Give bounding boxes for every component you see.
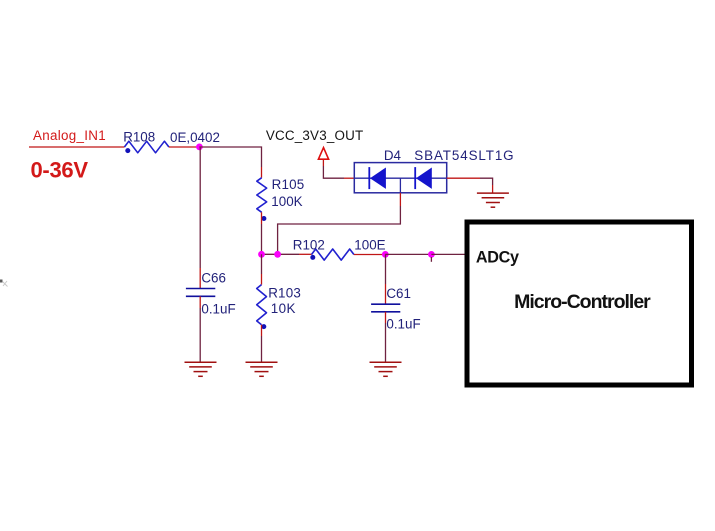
wire into micro-controller bbox=[431, 253, 466, 255]
label D4 bbox=[384, 148, 402, 163]
capacitor C66 bbox=[186, 289, 215, 297]
wire R105 to junction row bbox=[261, 212, 263, 254]
value 0E,0402 bbox=[170, 130, 220, 145]
label R103 bbox=[268, 285, 301, 300]
value 100E bbox=[354, 238, 385, 253]
wire R103 to ground bbox=[261, 325, 263, 362]
label R108 bbox=[123, 129, 155, 144]
node junction (R103 top) bbox=[258, 251, 265, 258]
svg-text:R102: R102 bbox=[293, 237, 325, 252]
capacitor C61 bbox=[371, 304, 400, 312]
svg-text:R105: R105 bbox=[272, 177, 305, 192]
label Micro-Controller bbox=[514, 291, 651, 313]
wire junction row y=254 bbox=[262, 253, 312, 255]
value 0.1uF (C61) bbox=[386, 317, 420, 332]
resistor R103 bbox=[257, 254, 267, 329]
wire red pin into R105 bbox=[261, 167, 263, 178]
ground (D4) bbox=[477, 193, 509, 207]
svg-text:100K: 100K bbox=[271, 194, 302, 209]
svg-text:100E: 100E bbox=[354, 238, 385, 253]
wire R102 to C61 junction bbox=[354, 254, 385, 256]
diode D4 right element bbox=[415, 167, 432, 189]
node junction (C61 tap) bbox=[382, 251, 389, 258]
label R105 bbox=[272, 177, 305, 192]
value 10K bbox=[271, 301, 296, 316]
power symbol VCC_3V3_OUT bbox=[266, 128, 363, 159]
D4 center pin inside box bbox=[399, 178, 401, 193]
resistor R102 bbox=[310, 249, 354, 260]
svg-text:D4: D4 bbox=[384, 148, 402, 163]
value 0.1uF (C66) bbox=[201, 302, 235, 317]
wire Analog_IN1 to R108 bbox=[29, 146, 124, 148]
svg-text:0.1uF: 0.1uF bbox=[201, 302, 235, 317]
diode D4 left element bbox=[369, 167, 386, 189]
wire R108 to junction bbox=[169, 146, 200, 148]
ground (R103) bbox=[246, 362, 278, 376]
ground (C66) bbox=[185, 362, 217, 376]
resistor R108 bbox=[124, 141, 168, 153]
label 0-36V bbox=[31, 157, 89, 182]
svg-text:0.1uF: 0.1uF bbox=[386, 317, 420, 332]
svg-text:10K: 10K bbox=[271, 301, 296, 316]
ground (C61) bbox=[370, 362, 402, 376]
wire junction to ADC node bbox=[385, 253, 431, 255]
svg-text:ADCy: ADCy bbox=[476, 249, 519, 267]
label C66 bbox=[201, 270, 226, 285]
wire C61 to ground bbox=[385, 312, 387, 362]
label R102 bbox=[293, 237, 325, 252]
svg-text:C66: C66 bbox=[201, 270, 226, 285]
label C61 bbox=[386, 286, 411, 301]
diode D4 box bbox=[354, 163, 446, 193]
edge artifact mark bbox=[0, 280, 8, 287]
wire C61 junction down bbox=[385, 254, 387, 304]
node junction (D4 branch) bbox=[274, 251, 281, 258]
svg-text:Analog_IN1: Analog_IN1 bbox=[33, 128, 106, 143]
node junction A (R108 out) bbox=[196, 144, 203, 151]
node junction (ADC stub) bbox=[428, 251, 435, 262]
micro-controller U-block bbox=[467, 222, 692, 385]
net label Analog_IN1 bbox=[33, 128, 106, 143]
pin label ADCy bbox=[476, 249, 519, 267]
wire C66 to ground bbox=[199, 296, 201, 362]
wire D4 right pin to ground bbox=[447, 178, 493, 193]
svg-text:C61: C61 bbox=[386, 286, 411, 301]
svg-text:0E,0402: 0E,0402 bbox=[170, 130, 220, 145]
svg-text:R108: R108 bbox=[123, 129, 155, 144]
resistor R105 bbox=[257, 178, 267, 221]
svg-text:SBAT54SLT1G: SBAT54SLT1G bbox=[414, 148, 514, 163]
svg-text:R103: R103 bbox=[268, 285, 301, 300]
wire junction down to C66 bbox=[199, 147, 201, 288]
value SBAT54SLT1G bbox=[414, 148, 514, 163]
value 100K bbox=[271, 194, 302, 209]
svg-text:Micro-Controller: Micro-Controller bbox=[514, 291, 651, 313]
wire junction to R105 corner bbox=[199, 147, 261, 167]
wire D4 bottom pin to junction row bbox=[278, 193, 401, 255]
svg-text:VCC_3V3_OUT: VCC_3V3_OUT bbox=[266, 128, 363, 143]
svg-text:0-36V: 0-36V bbox=[31, 157, 89, 182]
wire VCC to D4 bbox=[323, 160, 354, 178]
